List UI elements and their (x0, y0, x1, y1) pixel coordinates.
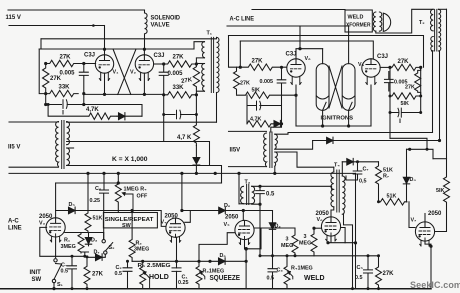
svg-text:V₂: V₂ (130, 70, 137, 76)
svg-text:0.005: 0.005 (168, 71, 184, 77)
junction R5 top (141, 260, 144, 263)
svg-text:R₄1MEG: R₄1MEG (291, 266, 313, 272)
junction D (82, 92, 85, 95)
transformer T2 primary upper winding (431, 9, 434, 31)
wire V7 grid path (407, 202, 416, 228)
tube V1 (95, 55, 113, 81)
wire 27K column right (420, 67, 422, 112)
wire T4 left bottom to V6 plate (331, 207, 334, 210)
svg-text:3: 3 (304, 234, 307, 240)
svg-text:2050: 2050 (428, 211, 442, 217)
wire T2 left lower bottom drop (432, 51, 433, 133)
svg-text:S₁: S₁ (57, 282, 64, 288)
potentiometer R6 WELD (284, 256, 290, 289)
capacitor C6 (100, 173, 109, 239)
junction rail1 51K (86, 172, 89, 175)
wire box left edge (39, 49, 46, 94)
svg-text:A-C LINE: A-C LINE (230, 17, 255, 23)
wire V6 grid lead (314, 227, 322, 229)
junction V2 bottom (143, 93, 146, 96)
wire secondary lower top lead (275, 152, 334, 167)
transformer T1 primary lower winding (202, 64, 205, 92)
diode ignition line (327, 137, 333, 144)
transformer T4 core (337, 170, 339, 212)
svg-text:C₇: C₇ (363, 167, 369, 173)
wire D7 leads (87, 254, 105, 257)
wire box top rail (39, 48, 194, 50)
svg-text:K = X 1,000: K = X 1,000 (112, 157, 148, 163)
wire T1 primary top long (41, 37, 217, 38)
wire V5 cathode bracket (246, 228, 261, 249)
weld transformer coil right (379, 12, 381, 31)
svg-text:R₁: R₁ (64, 238, 71, 244)
wire ignitron 1 cathode (322, 110, 324, 126)
svg-text:3MEG: 3MEG (61, 244, 76, 250)
resistor 27K vertical right (193, 64, 199, 90)
wire T1 primary lower top lead (196, 63, 204, 65)
junction cap left (389, 111, 392, 114)
capacitor 0.5 T3 (256, 186, 265, 204)
wire control rail 2 (56, 182, 222, 184)
svg-text:D₅: D₅ (69, 202, 76, 208)
svg-text:WELD: WELD (304, 275, 325, 282)
svg-text:3: 3 (286, 237, 289, 243)
wire ignition diode line (313, 140, 440, 142)
capacitor coupling right circuit (247, 101, 282, 110)
diode T4 line (347, 158, 353, 165)
junction C5 rail (367, 287, 370, 290)
svg-text:C₃: C₃ (277, 268, 284, 274)
svg-text:V₄: V₄ (161, 220, 168, 226)
supply transformer right core (270, 132, 272, 168)
junction J (195, 93, 198, 96)
svg-text:T₃: T₃ (245, 180, 251, 186)
wire ignitron cross 1 (329, 66, 342, 108)
wire right edge lower tie (433, 158, 447, 160)
wire V5 grid path (199, 233, 235, 262)
junction T4 return rail (351, 287, 354, 290)
svg-text:SeekIC.com: SeekIC.com (410, 280, 460, 290)
wire V6 bracket (341, 228, 346, 243)
resistor 27K horizontal left (46, 60, 96, 66)
wire V3 grid (40, 227, 87, 256)
junction G (162, 62, 165, 65)
junction 27K right node (419, 66, 422, 69)
potentiometer R3 SQUEEZE (196, 261, 202, 288)
switch S1 top contact (54, 259, 57, 262)
svg-text:V₆: V₆ (317, 217, 324, 223)
wire C7 R7 top line (342, 161, 378, 163)
wire T4 left top feed (333, 167, 335, 172)
diode D8 (219, 207, 226, 214)
junction T3 rail1 (237, 172, 240, 175)
junction 27K rail (377, 287, 380, 290)
tube V6 2050 (321, 217, 340, 241)
capacitor 0.005 V9 (385, 72, 394, 92)
junction 51K cathode (294, 94, 297, 97)
junction y149 corner (426, 148, 429, 151)
wire V1 cathode drop (104, 73, 106, 94)
junction plate rail V5 (242, 209, 245, 212)
tube V8 C3J (287, 59, 305, 85)
resistor 27K vertical right circuit (234, 67, 240, 94)
junction D7 27K (86, 255, 89, 258)
svg-text:V₅: V₅ (224, 222, 231, 228)
resistor 27K lower left (84, 256, 90, 288)
svg-text:27K: 27K (398, 59, 410, 65)
junction plate riser rail1 (180, 172, 183, 175)
svg-text:V₉: V₉ (358, 62, 365, 68)
svg-text:33K: 33K (173, 85, 185, 91)
tube V7 2050 (415, 222, 434, 246)
wire rail link (117, 173, 119, 183)
junction R3 top (197, 260, 200, 263)
tube V4 2050 (166, 218, 185, 242)
wiper R3 wire (201, 273, 204, 279)
junction V8 plate (298, 47, 301, 50)
supply transformer left secondary upper (67, 122, 70, 145)
capacitor C5 (364, 256, 373, 289)
wire ignitron 2 cathode (348, 110, 350, 126)
wire V4 plate bracket (185, 211, 191, 223)
svg-text:0.5: 0.5 (355, 275, 363, 281)
wire 115V right top (229, 130, 267, 132)
junction 0.005 grid (280, 66, 283, 69)
wire T3 bottom tie (239, 203, 252, 205)
svg-text:D₄: D₄ (410, 177, 417, 183)
svg-text:LINE: LINE (8, 226, 22, 232)
junction V7 cathode (429, 245, 432, 248)
wire T3 secondary top line (252, 186, 332, 189)
wire third line left drop (229, 36, 241, 68)
wire plate rail D5 (56, 211, 166, 227)
svg-text:C₆: C₆ (95, 186, 102, 192)
capacitor 0.005 V8 (277, 67, 286, 124)
wire V7 plate stub (424, 214, 426, 222)
supply transformer right primary winding (264, 133, 267, 167)
junction V9 27K left (388, 66, 391, 69)
wire ignitron 2 anode (348, 26, 350, 64)
svg-text:T₄: T₄ (334, 163, 340, 169)
capacitor C2 (123, 261, 132, 288)
junction ign2 rail (347, 124, 350, 127)
transformer T3 left winding (241, 186, 244, 203)
wire V3 plate (55, 183, 57, 218)
wire cap to 4.7K (246, 95, 248, 124)
transformer T1 secondary winding (217, 37, 220, 92)
diode D1 (117, 113, 142, 120)
junction rail drop cathode (354, 241, 357, 244)
junction tick second line (92, 24, 95, 27)
wiper R4 wire (125, 194, 133, 213)
tube V2 (135, 55, 153, 81)
svg-text:SQUEEZE: SQUEEZE (210, 275, 241, 282)
svg-text:XFORMER: XFORMER (346, 23, 371, 29)
svg-text:2050: 2050 (225, 215, 239, 221)
junction secondary rail1 (273, 172, 276, 175)
junction hold rail drop (245, 260, 248, 263)
weld secondary loop (383, 13, 390, 31)
junction rail link bottom (117, 181, 120, 184)
junction plate riser (180, 209, 183, 212)
svg-text:0.005: 0.005 (60, 71, 76, 77)
wire cap05 bottom drop (252, 204, 260, 256)
resistor R2 3MEG (129, 211, 135, 262)
wire V9 left column (389, 67, 391, 138)
wire box left riser (40, 39, 42, 49)
junction R7 bottom (377, 200, 380, 203)
wire cap stub (83, 94, 85, 105)
wire R1 D3 join (81, 252, 89, 256)
wiper R5 (143, 272, 146, 275)
svg-text:5IK: 5IK (401, 101, 409, 107)
diode D6 (219, 258, 226, 265)
junction C7 top (356, 160, 359, 163)
svg-text:27K: 27K (60, 55, 72, 61)
junction R1 grid line (83, 255, 86, 258)
svg-text:5IK: 5IK (252, 88, 260, 94)
junction S1 rail (52, 287, 55, 290)
svg-text:C3J: C3J (377, 54, 388, 60)
diode D4 (403, 177, 409, 184)
junction V6 grid (312, 227, 315, 230)
svg-text:V₈: V₈ (305, 56, 312, 62)
ignitron 2 envelope (342, 64, 355, 111)
transformer T4 left winding (331, 172, 334, 207)
svg-text:27K: 27K (50, 76, 62, 82)
wire T2 secondary top lead (438, 8, 446, 10)
wire hold rail (132, 260, 246, 262)
resistor 3MEG right (311, 228, 317, 256)
wire secondary upper top lead (275, 133, 433, 135)
potentiometer R4 OFF (115, 183, 121, 213)
capacitor 0.005 left (79, 64, 88, 94)
svg-text:D₃: D₃ (91, 238, 98, 244)
junction squeeze rail 27K (377, 254, 380, 257)
junction A (44, 62, 47, 65)
tube V5 2050 (235, 220, 254, 244)
svg-text:V₃: V₃ (39, 221, 46, 227)
junction V6 cathode (326, 241, 329, 244)
wire V2 plate into tube (143, 50, 145, 55)
svg-text:33K: 33K (59, 85, 71, 91)
svg-text:T₂: T₂ (419, 20, 425, 26)
svg-text:1MEG R₄: 1MEG R₄ (124, 187, 148, 193)
junction C (44, 92, 47, 95)
svg-text:MEG: MEG (281, 243, 293, 249)
transformer T1 primary upper winding (202, 42, 205, 58)
junction ign1 rail (321, 124, 324, 127)
svg-text:INIT: INIT (30, 270, 42, 276)
switch S2 top contact (102, 240, 105, 243)
wire right third line (229, 36, 424, 68)
box WELD XFORMER (345, 10, 372, 32)
wire T1 secondary bottom drop (216, 93, 218, 123)
svg-text:OFF: OFF (137, 194, 148, 200)
junction D6 left (208, 260, 211, 263)
svg-text:R₇: R₇ (383, 174, 389, 180)
resistor 51K right edge (435, 159, 450, 232)
wire secondary lower bottom to rail (67, 166, 222, 184)
wire rail tie (221, 173, 223, 183)
svg-text:C3J: C3J (154, 53, 165, 59)
wire D2 column (272, 211, 274, 256)
supply transformer left secondary lower (67, 148, 70, 165)
resistor R1 3MEG (78, 233, 84, 254)
wire V8 cathode drop (295, 85, 297, 126)
svg-text:3MEG: 3MEG (134, 247, 149, 253)
wire cross diagonal 1 (113, 49, 131, 94)
wiper R6 wire (289, 273, 292, 279)
wiper R4 (122, 192, 125, 195)
resistor 51K left (85, 173, 91, 232)
ignitron 1 envelope (316, 64, 329, 111)
svg-text:0.5: 0.5 (267, 276, 275, 282)
supply transformer left core (62, 121, 64, 169)
svg-text:4,7K: 4,7K (86, 107, 99, 113)
wire diode to transformer (271, 124, 282, 132)
junction 27K rail (86, 287, 89, 290)
svg-text:SW: SW (32, 277, 42, 283)
junction V1 top (103, 48, 106, 51)
junction cap05 top (258, 185, 261, 188)
svg-text:WELD: WELD (348, 15, 364, 21)
svg-text:D₇: D₇ (94, 250, 100, 256)
wire right second line (227, 25, 349, 27)
tube V9 C3J (362, 59, 380, 85)
transformer T1 core (211, 37, 213, 92)
junction V2 top (143, 48, 146, 51)
wire cross bottom rail (84, 93, 164, 95)
wire secondary lower stub (67, 147, 74, 149)
wire secondary lower bottom lead (274, 166, 276, 173)
wire V5 plate (242, 211, 244, 221)
resistor 51K right circuit (237, 92, 297, 98)
wire bottom rail (0, 288, 431, 290)
resistor 27K horizontal right (164, 61, 197, 67)
wire V2 grid (154, 63, 164, 65)
junction squeeze rail C5 (367, 254, 370, 257)
wire V6 plate riser (330, 210, 332, 217)
svg-text:T₁: T₁ (207, 31, 213, 37)
weld transformer coil left (373, 12, 375, 31)
resistor 4.7K vertical (193, 95, 199, 146)
transformer T3 right winding (252, 186, 255, 203)
svg-text:D₆: D₆ (220, 253, 227, 259)
diode D7 (96, 254, 103, 261)
wire V5 cathode drop (244, 240, 246, 249)
svg-text:V₇: V₇ (411, 218, 417, 224)
switch S1 bottom contact (52, 279, 55, 282)
wiper R3 (200, 272, 203, 275)
svg-text:VALVE: VALVE (151, 23, 170, 29)
wire T1 primary upper bottom lead (196, 58, 204, 64)
junction diode bus (280, 122, 283, 125)
wire K box top (67, 121, 217, 123)
junction C1 top (175, 260, 178, 263)
wire V7 cathode (425, 241, 431, 289)
svg-text:D₆: D₆ (224, 203, 231, 209)
svg-text:SOLENOID: SOLENOID (151, 16, 181, 22)
svg-text:II5V: II5V (230, 148, 241, 154)
resistor 4.7K horizontal (89, 113, 117, 119)
wire 115V primary bottom (9, 166, 59, 168)
wire ignitron cross 2 (329, 66, 342, 108)
svg-text:5IK: 5IK (436, 188, 444, 194)
wire V1 plate drop (104, 26, 106, 51)
diode D vert (193, 146, 200, 174)
wire y138 line (390, 138, 427, 149)
junction 27K h left (239, 66, 242, 69)
svg-text:R₃1MEG: R₃1MEG (203, 269, 225, 275)
capacitor C1 (172, 268, 181, 272)
wire V9 grid lead (380, 66, 390, 68)
junction V1 bottom (103, 93, 106, 96)
wire left cathode rail (45, 94, 47, 105)
svg-text:0.25: 0.25 (178, 280, 189, 286)
wire ignitron 1 anode (322, 49, 324, 64)
junction squeeze rail x260 (259, 254, 262, 257)
wire weld primary bottom (376, 9, 433, 33)
resistor 27K horizontal V8 (240, 64, 286, 70)
svg-text:51K: 51K (387, 194, 397, 200)
wire squeeze rail right (260, 255, 379, 257)
resistor 4.7K right circuit zigzag (247, 121, 274, 127)
junction E (44, 103, 47, 106)
junction rail1 diode47 (195, 172, 198, 175)
svg-text:C3J: C3J (84, 53, 95, 59)
resistor 27K horizontal V9 (390, 64, 421, 70)
transformer T2 core (435, 9, 437, 51)
svg-text:27K: 27K (240, 81, 250, 87)
wire plate rail right (182, 173, 273, 210)
junction cap05 bottom (258, 203, 261, 206)
potentiometer R5 HOLD (140, 261, 146, 288)
junction I (162, 93, 165, 96)
resistor 33K horizontal left (46, 90, 78, 96)
svg-text:V₁: V₁ (113, 70, 120, 76)
junction F (82, 103, 85, 106)
wire T1 primary upper lead (194, 42, 205, 49)
svg-text:R₅ 2.5MEG: R₅ 2.5MEG (138, 263, 171, 269)
junction rail link top (117, 172, 120, 175)
transformer T3 core (247, 184, 249, 204)
wire control rail 1 (9, 172, 356, 174)
capacitor 0.005 right (159, 64, 168, 95)
wire V8 plate lead (296, 49, 323, 59)
svg-text:115 V: 115 V (6, 15, 21, 21)
junction 3MEG left rail (294, 254, 297, 257)
svg-text:C3J: C3J (286, 52, 297, 58)
transformer T2 primary lower winding (431, 37, 433, 51)
svg-text:MEG: MEG (299, 241, 311, 247)
wiper R5 wire (145, 273, 150, 288)
junction 51K left (389, 95, 392, 98)
switch S2 (105, 243, 112, 251)
svg-text:0.5: 0.5 (61, 269, 69, 275)
wire T2 secondary bottom drop (439, 51, 441, 141)
capacitor C3 (268, 256, 277, 289)
supply transformer right secondary upper (275, 134, 278, 149)
junction H (195, 62, 198, 65)
wire fourth line left drop (239, 41, 241, 67)
transformer T4 right winding (342, 176, 345, 214)
junction 51K right (419, 95, 422, 98)
resistor 33K horizontal right (164, 92, 197, 98)
svg-text:27K: 27K (252, 59, 264, 65)
wire T3 primary feed (238, 173, 240, 203)
resistor 27K vertical V9 (415, 67, 421, 96)
